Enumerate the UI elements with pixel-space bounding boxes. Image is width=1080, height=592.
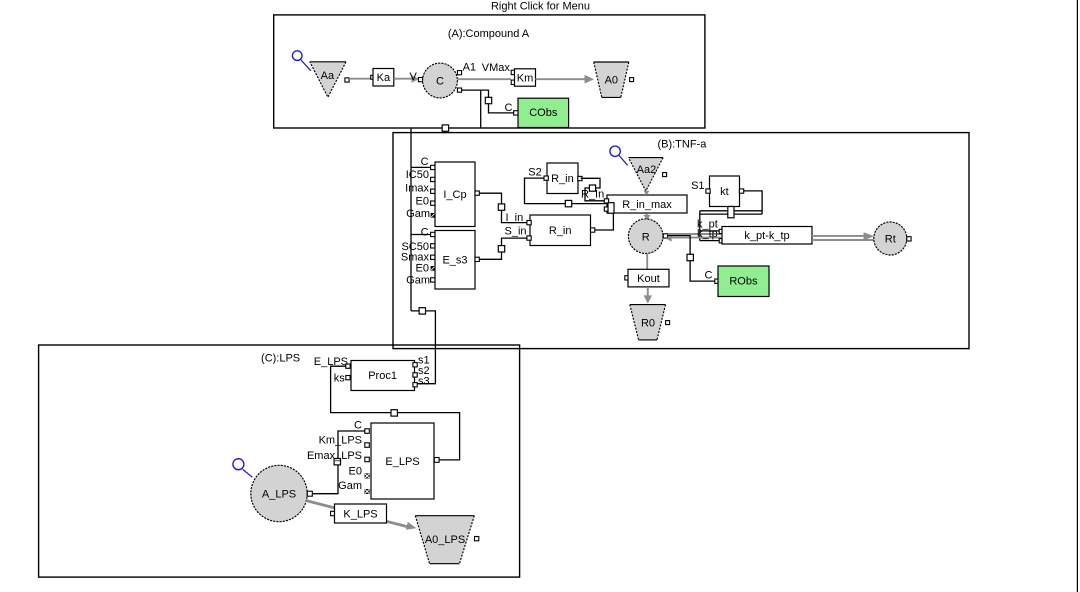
svg-text:k_tp: k_tp	[697, 228, 718, 240]
port S_in of R_in	[527, 236, 531, 240]
junction on E_LPS loop wire	[391, 410, 397, 416]
sink trapezoid A0_LPS	[415, 516, 474, 564]
junction on A_LPS wire	[334, 459, 340, 465]
svg-text:S1: S1	[691, 180, 704, 192]
svg-text:R_in: R_in	[551, 173, 574, 185]
wire R to Kout	[646, 253, 648, 269]
port k_pt of flux box	[719, 229, 723, 233]
port Emax_LPS of E_LPS	[365, 457, 370, 462]
port Km upper	[511, 70, 515, 74]
magnifier icon B	[610, 146, 628, 165]
arrow Kout to R0	[644, 287, 652, 304]
svg-text:Gam: Gam	[338, 480, 362, 492]
port C of E_s3	[431, 232, 435, 236]
flux procedure box k_pt-k_tp	[722, 227, 812, 245]
svg-text:E0: E0	[349, 466, 362, 478]
compartment circle R	[628, 219, 663, 254]
port of C input	[418, 78, 422, 82]
compartment circle A_LPS	[251, 465, 307, 521]
svg-text:S2: S2	[528, 167, 541, 179]
svg-text:A1: A1	[463, 61, 476, 73]
port R_in top input	[544, 176, 548, 180]
svg-text:C: C	[421, 156, 429, 168]
magnifier icon A	[292, 51, 310, 71]
svg-text:E_LPS: E_LPS	[385, 456, 419, 468]
port of R0	[666, 321, 670, 325]
port Smax of E_s3	[431, 255, 435, 259]
port of Aa	[345, 78, 349, 82]
junction on RObs wire	[687, 254, 693, 260]
procedure box Km	[515, 69, 536, 86]
svg-text:E0: E0	[416, 196, 429, 208]
port Gam of E_s3	[431, 278, 435, 282]
magnifier icon C	[233, 459, 253, 478]
svg-text:RObs: RObs	[729, 276, 758, 288]
svg-text:s3: s3	[418, 376, 430, 388]
wire R_in middle to R_in_max lower port	[595, 213, 614, 230]
svg-text:VMax: VMax	[482, 62, 511, 74]
svg-text:Kout: Kout	[637, 273, 660, 285]
port of Ka input	[371, 75, 375, 79]
port IC50 of I_Cp	[431, 177, 435, 181]
junction on box A border	[442, 125, 448, 131]
wire E_LPS output loop to Proc1	[331, 366, 460, 460]
port I_Cp output	[475, 191, 479, 195]
wire C down to border	[480, 90, 482, 128]
compartment circle C	[423, 63, 458, 98]
port K_LPS input	[331, 511, 335, 515]
port 1 of R_in_max	[604, 199, 608, 203]
container box C frame	[39, 345, 520, 577]
port s1 of Proc1	[413, 363, 417, 367]
port R_in top output	[578, 176, 582, 180]
svg-text:R0: R0	[641, 318, 655, 330]
wire C net down into box B to I_Cp E_s3 and Proc1 s3	[410, 129, 412, 311]
port k_tp of flux box	[719, 239, 723, 243]
dosepoint triangle Aa	[310, 62, 346, 97]
procedure box Kout	[628, 269, 669, 287]
junction on S2 wire	[565, 200, 571, 206]
junction on I_Cp wire	[498, 204, 504, 210]
port E0 of E_LPS fixed	[365, 473, 370, 478]
procedure box Proc1	[351, 361, 415, 391]
svg-text:A0: A0	[605, 75, 618, 87]
port E0 of I_Cp	[431, 201, 435, 205]
observation box RObs	[718, 266, 769, 297]
port s3 of Proc1	[413, 383, 417, 387]
port SC50 of E_s3	[431, 244, 435, 248]
svg-text:I_in: I_in	[506, 212, 524, 224]
port Km_LPS of E_LPS	[365, 443, 370, 448]
port of A0	[630, 78, 634, 82]
svg-text:S_in: S_in	[505, 226, 527, 238]
svg-text:Ka: Ka	[377, 72, 391, 84]
procedure box R_in top	[547, 163, 578, 194]
right window edge line	[1076, 0, 1078, 592]
port Gam of E_LPS fixed	[365, 489, 370, 494]
svg-text:C: C	[436, 76, 444, 88]
svg-text:C: C	[705, 269, 713, 281]
procedure box Ka	[373, 69, 394, 87]
procedure box R_in middle	[530, 215, 591, 246]
svg-text:A0_LPS: A0_LPS	[425, 534, 465, 546]
container box B frame	[393, 133, 969, 349]
wire A_LPS to E_LPS C input	[312, 431, 365, 494]
port I_in of R_in	[527, 221, 531, 225]
svg-text:Aa2: Aa2	[637, 164, 657, 176]
svg-text:(A):Compound A: (A):Compound A	[448, 28, 530, 40]
svg-text:E0: E0	[416, 263, 429, 275]
arrow Aa2 to R_in_max	[644, 191, 650, 196]
port of Aa2	[663, 173, 667, 177]
port 2 of R_in_max	[604, 207, 608, 211]
port of RObs	[715, 279, 719, 283]
flux pipes R to k_pt-k_tp	[668, 233, 721, 235]
observation box CObs	[518, 98, 569, 127]
svg-text:R_In: R_In	[581, 188, 604, 200]
wire E_s3 to R_in S_in	[479, 238, 527, 259]
svg-text:ks: ks	[334, 373, 346, 385]
arrow into Rt	[864, 232, 875, 240]
compartment circle Rt	[874, 222, 907, 255]
svg-text:kt: kt	[720, 186, 729, 198]
svg-text:Aa: Aa	[321, 70, 335, 82]
port kt output	[739, 189, 743, 193]
sink trapezoid R0	[630, 305, 666, 340]
junction on E_s3 wire	[498, 246, 504, 252]
svg-text:(B):TNF-a: (B):TNF-a	[657, 138, 707, 150]
svg-text:Rt: Rt	[885, 234, 896, 246]
port of C lower right	[457, 88, 461, 92]
svg-text:A_LPS: A_LPS	[262, 489, 296, 501]
port A1 of C	[457, 71, 461, 75]
arrow into R	[666, 236, 671, 242]
port C of I_Cp	[431, 165, 435, 169]
svg-text:Emax_LPS: Emax_LPS	[307, 450, 362, 462]
port of Rt	[907, 237, 911, 241]
port E0 of E_s3 fixed	[431, 266, 436, 271]
port kt input	[706, 189, 710, 193]
svg-text:(C):LPS: (C):LPS	[261, 352, 300, 364]
wire flux to RObs	[667, 236, 715, 282]
wire I_Cp to R_in I_in	[479, 193, 527, 222]
port of A_LPS	[307, 491, 312, 496]
svg-text:V: V	[410, 71, 418, 83]
svg-text:k_pt-k_tp: k_pt-k_tp	[744, 230, 789, 242]
procedure box I_Cp	[435, 162, 475, 227]
junction on C net in box B	[419, 308, 425, 314]
arrow R_in_max to R	[643, 213, 650, 219]
wire C to CObs	[462, 90, 514, 113]
svg-text:IC50: IC50	[406, 169, 429, 181]
flux pipes k_pt-k_tp to Rt	[812, 235, 864, 237]
junction on CObs wire	[485, 97, 491, 103]
svg-text:Gam: Gam	[406, 274, 430, 286]
svg-text:Imax: Imax	[405, 183, 429, 195]
svg-text:Proc1: Proc1	[368, 370, 397, 382]
wire R_in top output to R_in_max	[581, 178, 605, 201]
port of CObs	[514, 111, 518, 115]
port E_LPS of Proc1	[346, 364, 350, 368]
svg-text:C: C	[505, 102, 513, 114]
svg-text:Km: Km	[517, 72, 534, 84]
procedure box kt	[710, 176, 740, 207]
svg-text:R: R	[642, 231, 650, 243]
port ks of Proc1	[346, 376, 350, 380]
wire C to Km	[458, 78, 512, 80]
svg-text:Km_LPS: Km_LPS	[319, 434, 362, 446]
port s2 of Proc1	[413, 373, 417, 377]
wire Aa to Ka	[349, 78, 371, 80]
procedure box E_LPS	[371, 423, 434, 499]
container box A frame	[274, 15, 705, 128]
junction on R_in wire	[589, 185, 595, 191]
port of A0_LPS	[475, 537, 479, 541]
svg-text:C: C	[354, 419, 362, 431]
tall white port rect on R_in_max	[608, 203, 614, 214]
wire kt loop to flux ports	[744, 191, 762, 214]
dosepoint triangle Aa2	[629, 158, 664, 191]
svg-text:Gam: Gam	[406, 208, 430, 220]
arrow A_LPS to A0_LPS	[306, 501, 416, 530]
svg-text:E_s3: E_s3	[442, 255, 467, 267]
port Imax of I_Cp	[431, 189, 435, 193]
svg-text:R_in: R_in	[549, 225, 572, 237]
port Kout input	[625, 276, 629, 280]
port E_LPS output	[434, 458, 439, 463]
svg-text:CObs: CObs	[529, 107, 558, 119]
wire S2 from R_in to R_in_max	[525, 178, 609, 204]
port R_in middle output	[591, 228, 595, 232]
procedure box E_s3	[435, 231, 475, 290]
port of R right	[663, 234, 667, 238]
procedure box K_LPS	[335, 504, 387, 523]
svg-text:C: C	[421, 226, 429, 238]
wire Ka to C with arrow	[394, 75, 419, 83]
wire Km to A0 with arrow	[536, 75, 595, 84]
svg-text:K_LPS: K_LPS	[343, 508, 377, 520]
svg-text:Right Click for Menu: Right Click for Menu	[491, 0, 590, 12]
sink trapezoid A0	[594, 62, 629, 97]
port C of E_LPS	[365, 429, 370, 434]
svg-text:R_in_max: R_in_max	[622, 199, 672, 211]
port Km lower	[511, 80, 515, 84]
port E_s3 output	[475, 257, 479, 261]
procedure box R_in_max	[607, 195, 687, 213]
tall white port rect on kt bottom	[728, 207, 734, 218]
svg-text:Smax: Smax	[401, 251, 430, 263]
port Gam of I_Cp fixed	[431, 213, 436, 218]
svg-text:I_Cp: I_Cp	[443, 189, 466, 201]
